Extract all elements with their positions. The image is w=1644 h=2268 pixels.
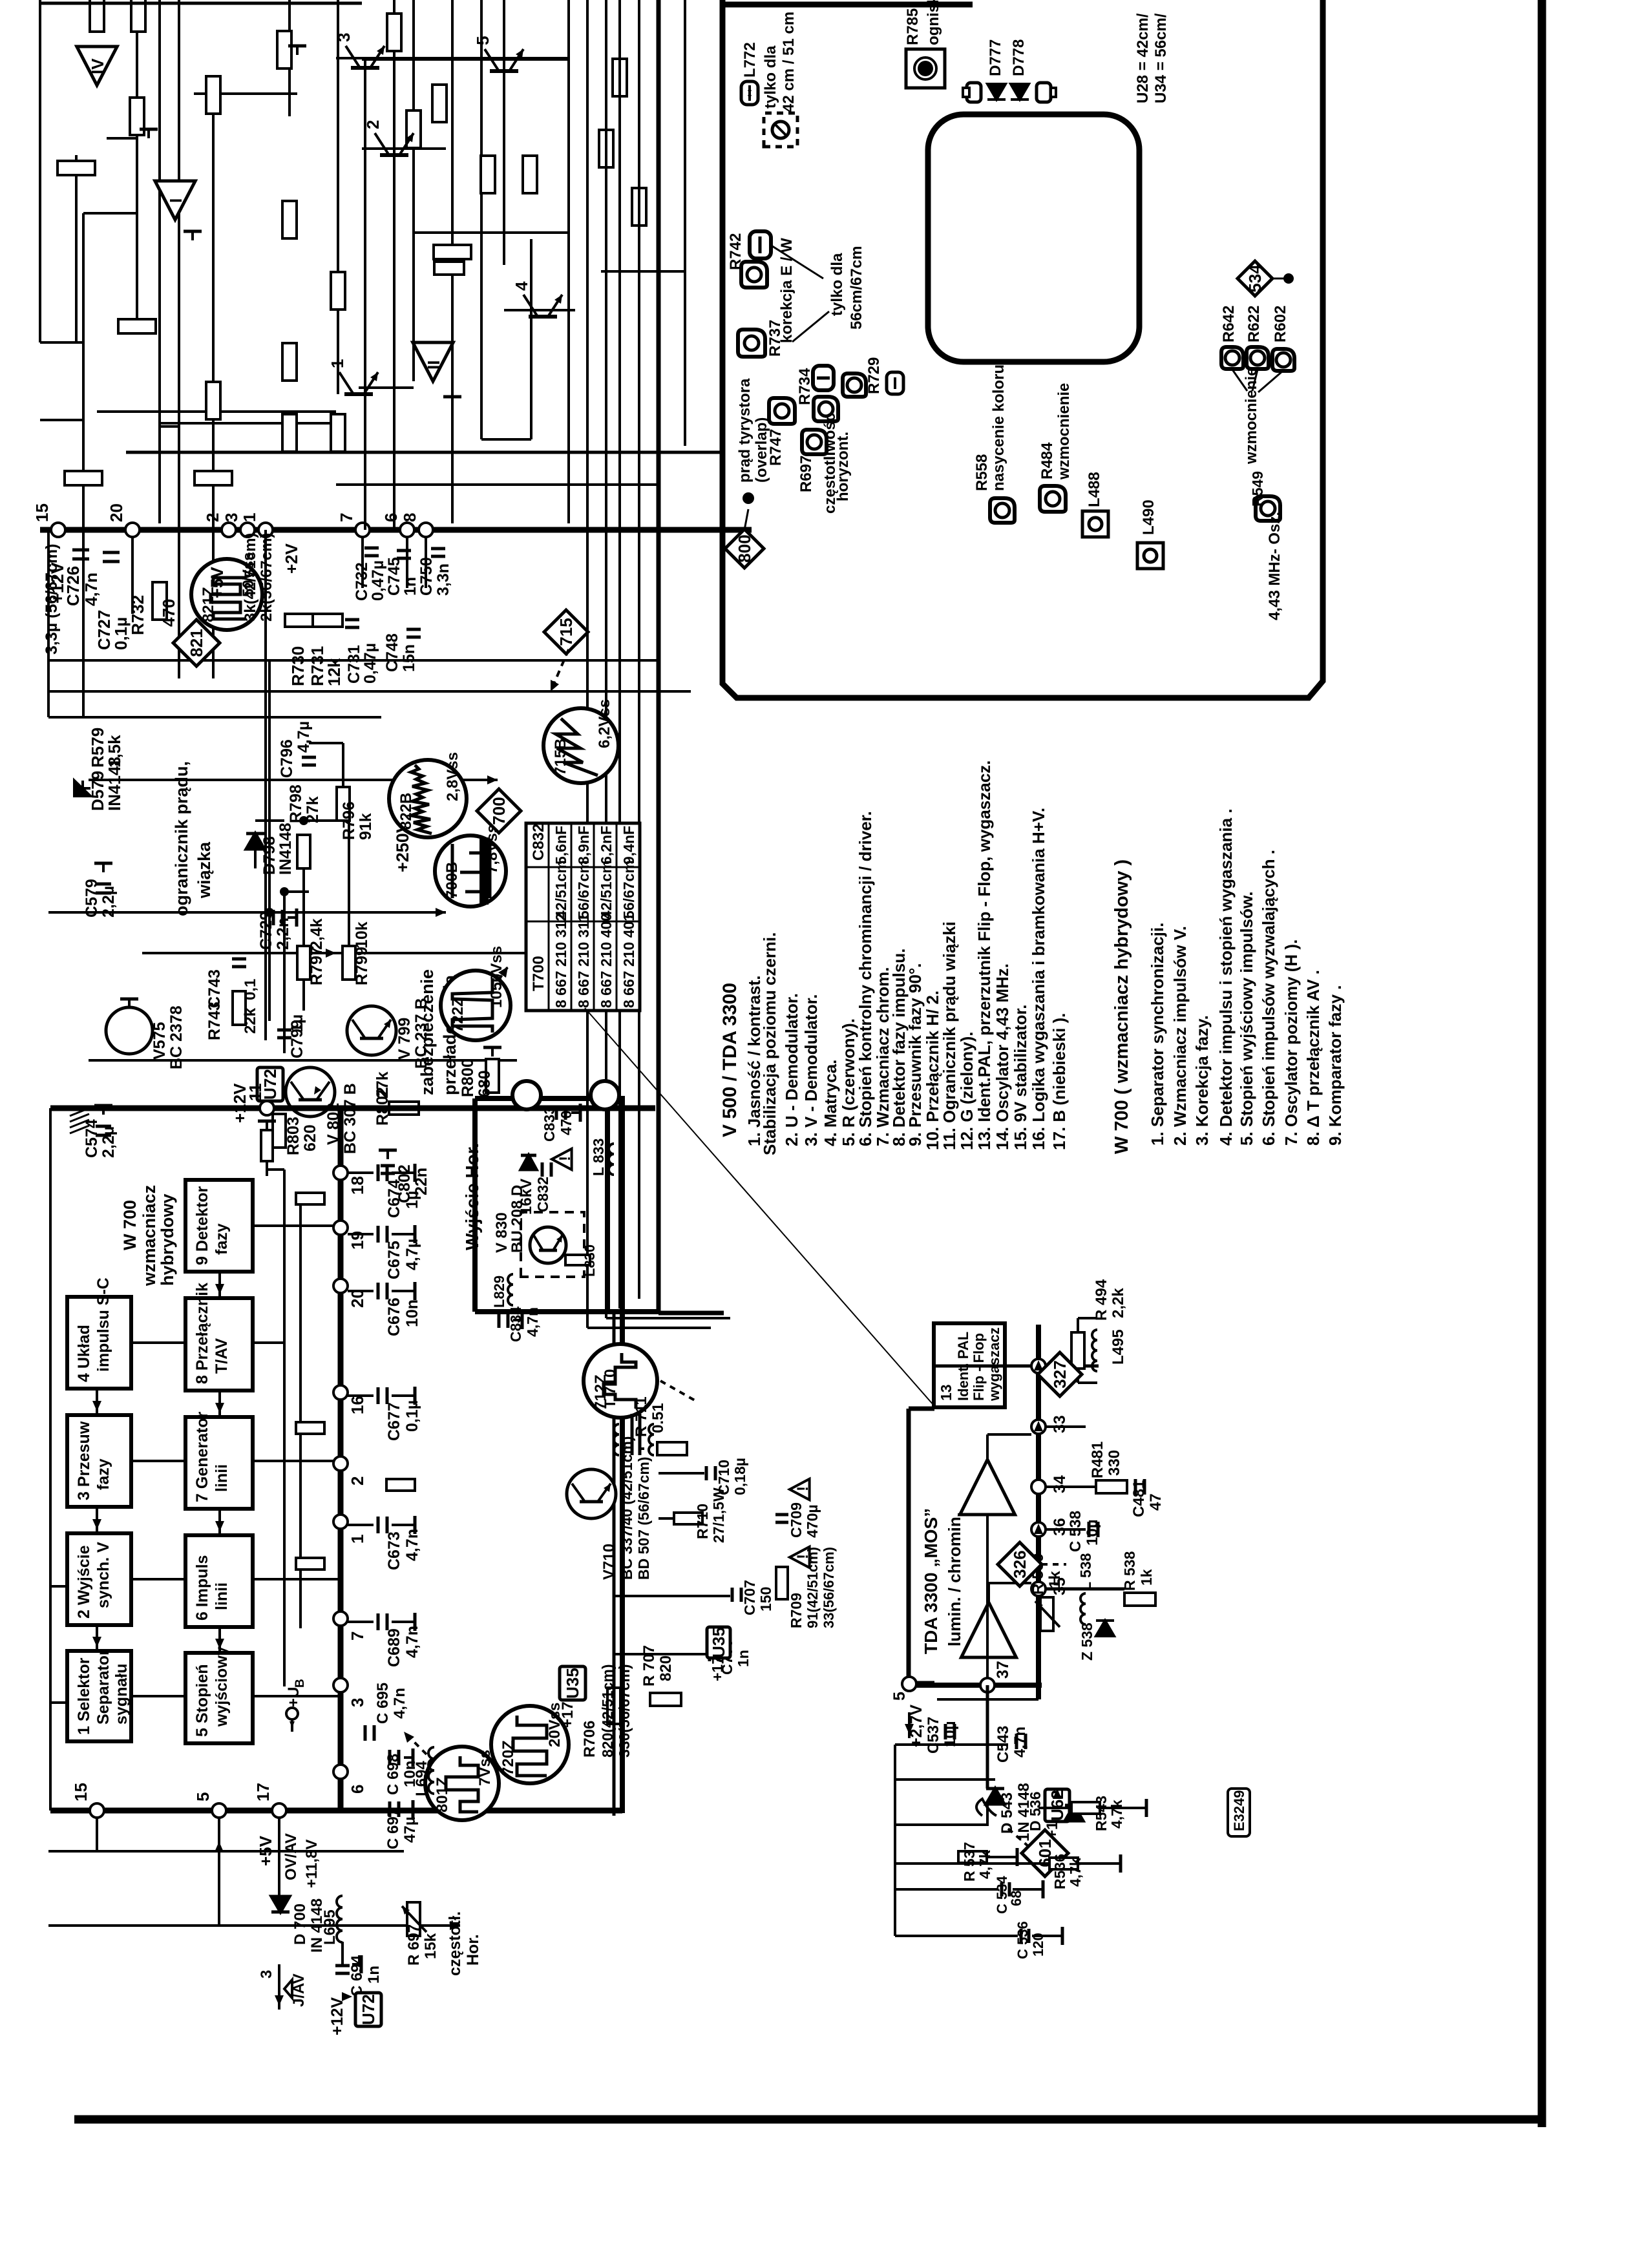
wires MOS area [934,1365,1031,1368]
svg-text:C676: C676 [385,1297,403,1336]
pointer line from table to C832 [585,1008,934,1405]
diode D798 [246,834,264,849]
svg-text:wzmocnienie: wzmocnienie [1055,383,1073,480]
wire pin6 stub [406,536,408,588]
svg-text:1k: 1k [1046,1571,1064,1588]
svg-text:470: 470 [558,1111,574,1135]
diamond 534 [1238,261,1272,296]
svg-text:34: 34 [1051,1475,1069,1493]
ground V500 g3 [451,397,454,406]
resistor R743 and C743 [233,991,246,1025]
resistor V500 internal r12 [434,245,471,259]
svg-text:R 707: R 707 [640,1645,658,1686]
svg-text:801Z: 801Z [434,1777,451,1812]
wire V500 internal h1 [82,213,85,717]
wire y637 [97,410,336,413]
pin 7 of V500 [355,523,370,537]
resistor R539 potentiometer [1040,1597,1053,1631]
capacitor C710 [705,1466,708,1480]
box E3249 [1228,1789,1250,1836]
capacitor C537 [944,1724,947,1739]
svg-text:20: 20 [107,503,126,522]
capacitor C707 [731,1588,734,1602]
svg-text:8. Δ T przełącznik AV .: 8. Δ T przełącznik AV . [1303,970,1323,1146]
svg-text:R709: R709 [788,1593,805,1628]
capacitor C750 [431,555,445,558]
resistor V500 internal r9 [432,85,447,122]
svg-text:wzmacniacz: wzmacniacz [140,1185,159,1286]
wire V500 left col v62 [39,0,41,342]
wire pin8 stub [425,536,427,588]
svg-text:0,47µ: 0,47µ [369,560,387,601]
pin 35 of TDA3300 MOS [1031,1582,1046,1596]
svg-text:0,1: 0,1 [242,979,259,1000]
resistor R707 [650,1693,681,1706]
svg-text:820: 820 [657,1655,675,1681]
svg-text:C481: C481 [1130,1480,1148,1517]
svg-text:impulsu S-C: impulsu S-C [94,1277,112,1372]
svg-text:8: 8 [400,513,419,522]
svg-text:R706: R706 [581,1721,598,1758]
trimmer R558 [990,498,1015,523]
ground V500 g2 [191,231,194,240]
diamond 326 [998,1542,1042,1586]
capacitor C677 [348,1394,374,1397]
resistor R797 [297,946,310,980]
wire line u2035 with arrow [142,952,630,954]
svg-text:7. Oscylator poziomy (H ).: 7. Oscylator poziomy (H ). [1281,940,1301,1146]
block 2 Wyjście [67,1533,131,1625]
resistor V500 r24 [434,262,464,275]
svg-text:3: 3 [258,1970,275,1979]
trimmer R729 [843,373,866,397]
wire long line u2400 [48,716,381,719]
wire V500 internal v5 [414,231,569,234]
pin 1 of TDA3300 MOS [1031,1359,1046,1373]
svg-text:6 Impuls: 6 Impuls [193,1555,211,1621]
svg-text:7: 7 [337,513,356,522]
svg-text:+12V: +12V [328,1997,346,2035]
svg-text:wiązka: wiązka [195,841,214,899]
svg-text:47µ: 47µ [401,1816,419,1843]
svg-text:68: 68 [1008,1891,1024,1906]
svg-text:T 710: T 710 [602,1369,619,1409]
curve transistor mark [976,1799,996,1816]
svg-text:R730: R730 [288,646,308,686]
wire V500 u2980 stub [40,341,76,344]
svg-text:4,43 MHz- Osz.: 4,43 MHz- Osz. [1266,512,1283,620]
wire V500 internal v9 [48,419,83,421]
svg-text:3,3µ (56/67cm): 3,3µ (56/67cm) [43,544,61,655]
wire bus elbow 2 [606,1317,730,1319]
svg-text:1: 1 [348,1535,367,1544]
zener Z538 and L538 [1080,1593,1086,1624]
resistor R802 [389,1102,419,1115]
svg-text:9,4nF: 9,4nF [620,826,637,865]
wire y655 [160,422,336,425]
capacitor C748 [406,636,421,639]
svg-text:R484: R484 [1038,442,1056,479]
svg-text:56/67cm: 56/67cm [575,860,592,919]
box R785 focus [906,49,945,88]
resistor V500 r25 [406,110,421,148]
svg-text:37: 37 [994,1661,1012,1679]
wire V500 y420 line [601,270,685,273]
capacitor C579 [96,892,111,895]
waveform circle 712Z [584,1344,657,1418]
svg-text:2. Wzmacniacz impulsów V.: 2. Wzmacniacz impulsów V. [1170,926,1190,1146]
wire bus line 5 (thick) [657,0,661,1313]
resistor R796 [337,787,350,821]
svg-text:11: 11 [246,1084,265,1102]
svg-text:R710: R710 [694,1504,711,1539]
svg-text:C677: C677 [385,1402,403,1441]
wire V500 internal v2 [194,92,297,95]
wire V500 internal v1 [336,57,569,59]
svg-text:R543: R543 [1093,1796,1110,1831]
big node circles [512,1081,541,1109]
svg-text:L 538: L 538 [1077,1553,1094,1591]
wire V500 y1645 line [89,1059,517,1062]
IC TDA3300 MOS left edge [909,1683,1042,1688]
svg-text:R602: R602 [1272,306,1289,342]
resistor R730 [285,614,315,627]
svg-text:wyjściowy: wyjściowy [213,1646,231,1727]
svg-text:R697: R697 [797,456,815,492]
svg-text:0.51: 0.51 [649,1403,667,1433]
pin 1 of W700 [333,1515,348,1529]
svg-text:częstotł.: częstotł. [446,1911,464,1976]
svg-text:3k(42/51cm): 3k(42/51cm) [242,533,259,622]
svg-text:7 Generator: 7 Generator [193,1411,211,1502]
svg-text:2: 2 [348,1476,367,1486]
capacitor C695 [364,1725,367,1741]
svg-text:47: 47 [1147,1493,1164,1511]
capacitor C543 [1015,1734,1018,1749]
svg-text:8 667 210 400: 8 667 210 400 [598,913,615,1008]
wire thick 17V [613,1312,616,1816]
svg-text:tylko dla: tylko dla [762,45,779,109]
svg-text:wzmocnienie: wzmocnienie [1243,368,1260,465]
capacitor C802 [381,1172,395,1175]
trimmer L772 symbol [741,81,758,105]
svg-text:822B: 822B [397,793,415,830]
svg-text:0,47µ: 0,47µ [361,643,379,684]
svg-text:6. Stopień impulsów wyzwala: 6. Stopień impulsów wyzwalających . [1259,850,1278,1146]
pin 1 of V500 [258,523,273,537]
svg-text:!: ! [556,1156,574,1161]
svg-text:L495: L495 [1110,1329,1127,1365]
ground V500 g1 [147,129,150,138]
capacitor C481 [1134,1479,1137,1495]
capacitor C732 [364,554,379,558]
svg-text:D798: D798 [260,836,279,875]
wire x277 link [178,530,180,660]
wire long line u2440 [48,690,691,693]
capacitor C689 [348,1621,374,1623]
wires zabezpieczenie area [283,892,286,1053]
svg-text:D 700: D 700 [291,1904,309,1945]
svg-text:9. Przesuwnik fazy 90°.: 9. Przesuwnik fazy 90°. [905,963,925,1146]
capacitor C796 [302,764,316,767]
arrow to 821 [205,606,213,620]
svg-text:1k: 1k [1138,1569,1155,1586]
svg-text:T/AV: T/AV [213,1338,231,1374]
transistor 3 (V500 internal) [351,66,379,70]
block 8 Przełącznik [185,1298,253,1391]
svg-text:C832: C832 [534,1177,551,1212]
capacitor C536 [1020,1929,1023,1943]
svg-text:2,4k: 2,4k [308,918,326,950]
diodes D777 D778 row [967,83,981,102]
svg-text:680: 680 [476,1070,494,1097]
wire V500 internal v3 [362,147,446,150]
svg-text:1: 1 [328,359,347,368]
wire bus line 4 [638,0,640,1299]
svg-text:2,2k: 2,2k [1110,1288,1127,1318]
pin 19 of W700 [333,1221,348,1235]
svg-text:fazy: fazy [94,1458,112,1490]
svg-text:5: 5 [193,1792,213,1801]
svg-text:9 Detektor: 9 Detektor [193,1186,211,1265]
block 9 Detektor [185,1180,253,1272]
svg-text:33(56/67cm): 33(56/67cm) [821,1547,837,1628]
pin 3 of V500 [240,523,255,537]
svg-text:R622: R622 [1245,306,1263,342]
capacitor C745 [397,557,411,560]
capacitor C697 [388,1801,392,1817]
svg-text:534: 534 [1245,264,1265,293]
potentiometer R697 [407,1902,420,1936]
svg-text:10µ: 10µ [942,1721,959,1747]
svg-text:L830: L830 [582,1244,598,1277]
svg-text:BD 507 (56/67cm): BD 507 (56/67cm) [635,1457,652,1580]
wire V500 internal h9 [412,0,415,381]
capacitor C534 [1000,1882,1004,1896]
transistor 4 (V500 internal) [529,315,557,319]
svg-text:4. Matryca.: 4. Matryca. [821,1060,840,1146]
pin 7 of W700 [333,1612,348,1626]
waveform circle 700B [435,835,506,907]
diode D536 [1065,1805,1083,1821]
svg-text:hybrydowy: hybrydowy [158,1193,177,1286]
pointer lines tylko dla 56 [770,245,823,278]
svg-text:L694: L694 [413,1761,430,1796]
svg-text:BC 307 B: BC 307 B [341,1083,359,1154]
resistor V500 internal r19 [282,414,297,452]
svg-text:2,2µ: 2,2µ [100,1126,118,1158]
arrow at pin 1 [1034,1360,1043,1370]
pin 36 of TDA3300 MOS [1031,1522,1046,1537]
capacitor C673 [348,1524,374,1526]
svg-text:U72: U72 [359,1994,378,2025]
transistor V802 BC307B [286,1067,335,1117]
svg-text:15n: 15n [400,644,418,672]
op-amp IV [77,47,117,85]
resistor R732 [153,582,167,620]
svg-text:Wyjście Hor.: Wyjście Hor. [462,1143,482,1250]
resistor V500 internal r14 [130,98,144,135]
capacitor C834 [498,1312,501,1328]
svg-text:1,5k: 1,5k [105,735,124,768]
svg-text:6. Stopień kontrolny chromina: 6. Stopień kontrolny chrominancji / driv… [856,811,875,1146]
svg-text:W 700: W 700 [120,1200,140,1250]
svg-text:lumin. / chromin.: lumin. / chromin. [945,1512,964,1646]
capacitor C698 [388,1750,392,1765]
dashed pointer 712Z [660,1381,698,1402]
transistor V830 BU208D in dashed box [521,1212,584,1277]
PCB outline top edge cut at page edge [725,2,973,8]
svg-text:R481: R481 [1089,1442,1106,1478]
svg-text:4,7µ: 4,7µ [295,721,313,753]
resistor R799 [342,946,355,980]
svg-text:2k(56/67cm): 2k(56/67cm) [258,533,275,622]
svg-text:16kV: 16kV [518,1179,535,1215]
capacitor C726 [72,558,89,561]
svg-text:C579: C579 [83,879,101,918]
svg-text:2,2µ: 2,2µ [100,886,118,918]
svg-text:E3249: E3249 [1231,1790,1247,1831]
svg-text:800: 800 [735,534,754,562]
block 1 Selektor [67,1651,131,1741]
svg-text:42 cm / 51 cm: 42 cm / 51 cm [780,12,797,112]
svg-text:150: 150 [757,1587,774,1612]
diamond 821 [173,620,220,666]
svg-text:10k: 10k [353,921,371,949]
svg-text:13: 13 [938,1384,954,1401]
wire V500 u2860 stub [40,419,76,421]
svg-text:6,2Vss: 6,2Vss [596,699,613,748]
arrow at 722Z [499,967,508,980]
pin 3 of W700 [333,1678,348,1692]
warning triangle 2 [790,1479,810,1500]
svg-text:33: 33 [1051,1415,1069,1433]
svg-text:C675: C675 [385,1241,403,1279]
svg-text:R 697: R 697 [405,1924,423,1966]
wire line v417 [268,660,271,1021]
svg-text:56cm/67cm: 56cm/67cm [848,246,865,330]
wires horizontal output area [614,1595,730,1597]
svg-text:4,7n: 4,7n [403,1626,421,1658]
svg-text:327: 327 [1050,1360,1070,1388]
svg-text:330: 330 [1106,1450,1123,1476]
svg-text:1: 1 [240,513,259,522]
svg-text:V 500 / TDA 3300: V 500 / TDA 3300 [719,983,741,1137]
capacitor C538 [1088,1522,1091,1537]
svg-text:3,3n: 3,3n [434,563,452,596]
pin 17 of W700 left [272,1803,286,1818]
svg-text:3. Korekcja fazy.: 3. Korekcja fazy. [1192,1015,1212,1146]
svg-text:R536: R536 [1051,1854,1068,1889]
op-amp II [413,342,453,381]
diode D543 [986,1789,1004,1804]
hatch marks on W700 [70,1126,89,1133]
wire bus line 2 [605,0,607,1318]
svg-text:56/67cm: 56/67cm [620,860,637,919]
resistor R537 [958,1851,987,1863]
svg-text:16. Logika wygaszania i bra: 16. Logika wygaszania i bramkowania H+V. [1029,808,1048,1150]
svg-text:91(42/51cm): 91(42/51cm) [805,1547,821,1628]
resistor V500 internal r20 [331,414,345,452]
resistor V500 internal r7 [206,382,220,419]
op-amp I [155,181,195,220]
transistor V710 [567,1469,616,1518]
diamond 700 [477,789,521,833]
svg-text:R797: R797 [308,947,326,985]
wire bus line 1 [586,0,589,1328]
svg-text:0,18µ: 0,18µ [732,1458,748,1495]
resistor R536 [1049,1858,1078,1869]
svg-text:C 536: C 536 [1015,1921,1031,1959]
svg-text:4,7n: 4,7n [391,1688,408,1719]
svg-text:91k: 91k [357,813,375,840]
wire V500 internal h4 [178,0,180,678]
svg-text:1µ: 1µ [288,1014,306,1033]
dashed pointer from 715 [551,649,569,691]
svg-text:Hor.: Hor. [464,1934,482,1966]
svg-text:linii: linii [213,1582,231,1610]
dashed to 326 [1042,1563,1066,1566]
svg-text:C574: C574 [83,1119,101,1158]
svg-text:+2V: +2V [282,543,301,574]
svg-text:C743: C743 [205,969,224,1008]
svg-text:V 799: V 799 [395,1018,414,1060]
wire V500 internal v4 [83,212,137,215]
svg-text:tylko dla: tylko dla [828,253,846,316]
capacitor C675 [348,1233,374,1235]
resistor R798 [297,835,310,868]
block 7 Generator [185,1417,253,1509]
svg-text:L695: L695 [321,1909,339,1945]
svg-text:5: 5 [890,1692,909,1701]
svg-text:715: 715 [556,618,576,646]
resistor V500 internal r11 [523,156,537,193]
resistor V500 internal r10 [481,156,495,193]
svg-text:12k: 12k [324,658,344,686]
border frame right edge [1538,0,1546,2127]
resistor V500 internal r4 [206,76,220,114]
warning triangle near L833 [552,1149,572,1170]
svg-text:L490: L490 [1140,499,1157,535]
block 4 Układ [67,1297,131,1389]
svg-text:470: 470 [159,599,178,627]
svg-text:4,7k: 4,7k [1067,1858,1084,1887]
wire pin20 stub [131,536,134,614]
resistor V500 internal r5 [277,31,291,68]
svg-text:8 667 210 401: 8 667 210 401 [620,913,637,1008]
resistor R800 [486,1059,499,1093]
dashed arrow to 801Z [404,1732,427,1754]
svg-text:D 543: D 543 [998,1792,1016,1834]
capacitor C676 [348,1290,374,1292]
wire V500 v565 [364,59,366,530]
waveform circle 715B [543,708,618,783]
svg-text:15: 15 [32,503,52,522]
svg-text:821: 821 [187,629,206,656]
block 6 Impuls [185,1535,253,1627]
capacitor C674 [348,1171,374,1174]
svg-text:1n: 1n [401,577,419,596]
svg-text:R737: R737 [766,320,784,357]
svg-text:6: 6 [381,513,401,522]
svg-text:10n: 10n [403,1299,421,1327]
svg-text:17: 17 [253,1783,273,1801]
svg-text:15: 15 [71,1783,90,1801]
wire V500 left col v118 [75,155,78,342]
svg-text:1n: 1n [365,1966,383,1984]
wire V500 internal h11 [480,0,483,439]
IC V500 top edge cut at page edge [40,2,362,5]
